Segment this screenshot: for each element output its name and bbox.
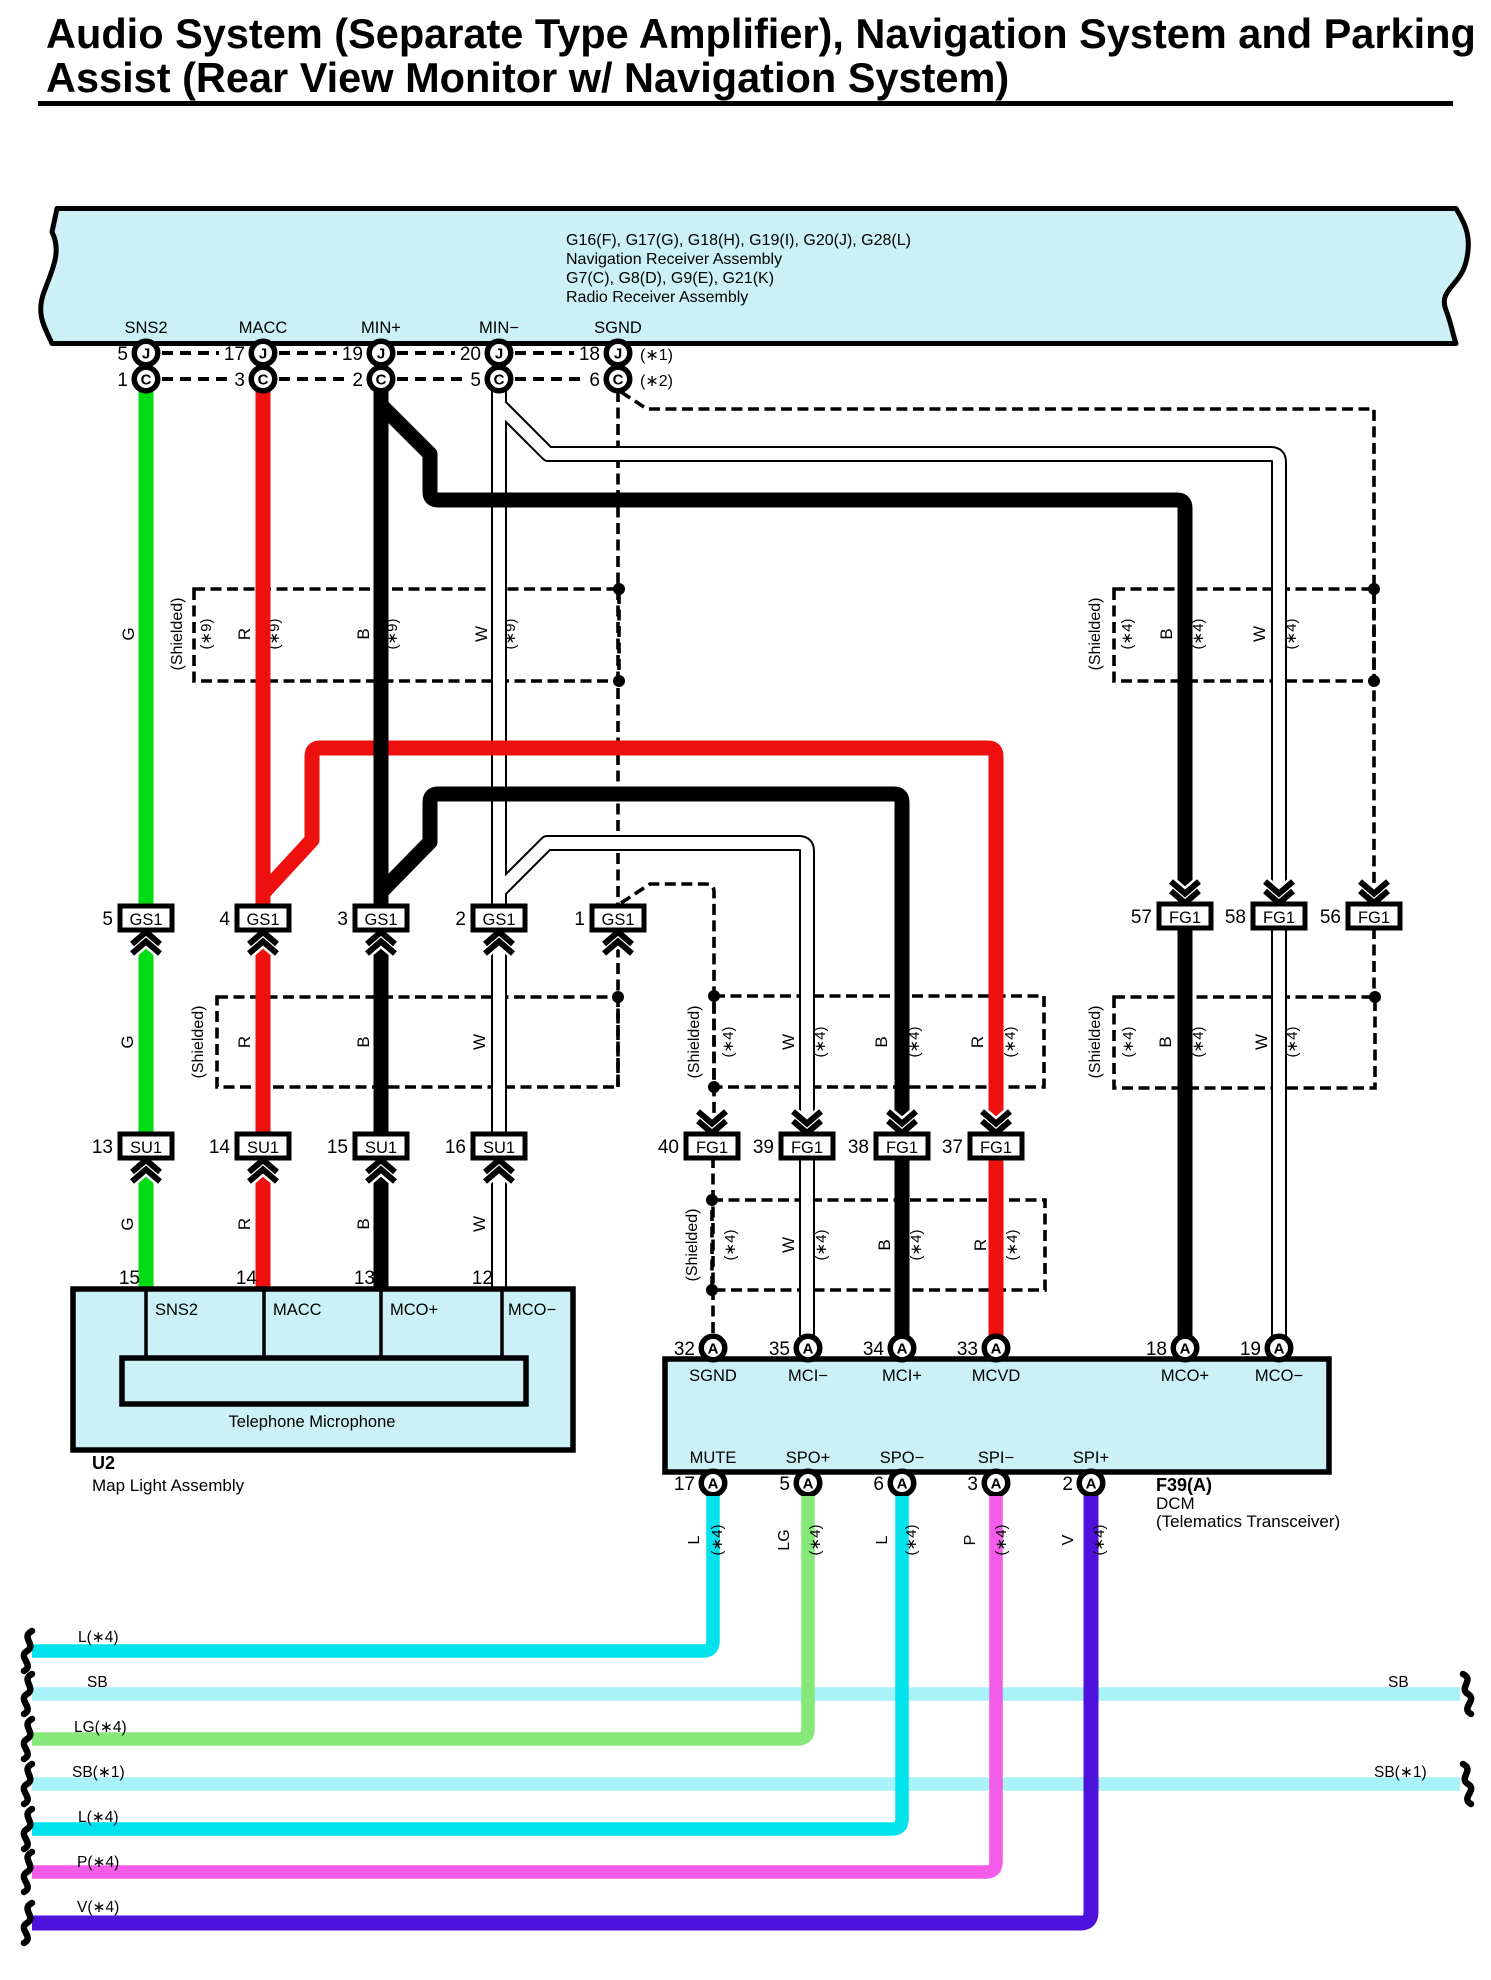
wire dashes C row	[397, 377, 463, 381]
wire LG SPO+	[32, 1496, 808, 1739]
svg-text:MCI−: MCI−	[788, 1367, 828, 1385]
svg-text:(∗4): (∗4)	[1002, 1027, 1019, 1058]
svg-text:G: G	[119, 627, 138, 640]
svg-text:38: 38	[848, 1137, 869, 1158]
svg-text:37: 37	[942, 1137, 963, 1158]
svg-text:2: 2	[352, 370, 363, 391]
svg-text:(∗4): (∗4)	[1119, 619, 1136, 650]
junction	[1368, 583, 1380, 595]
pin 33 A MCVD	[984, 1336, 1008, 1360]
svg-text:SPI−: SPI−	[978, 1449, 1014, 1467]
wire P pink SPI&#8722;	[32, 1496, 996, 1872]
torn wire end left	[24, 1903, 32, 1943]
svg-text:34: 34	[863, 1339, 885, 1360]
svg-text:(∗4): (∗4)	[722, 1230, 739, 1261]
svg-text:4: 4	[219, 909, 230, 930]
svg-text:A: A	[1086, 1476, 1097, 1493]
svg-text:GS1: GS1	[246, 911, 279, 929]
svg-text:(∗4): (∗4)	[1004, 1230, 1021, 1261]
Map Light Assembly U2 box	[73, 1289, 573, 1450]
junction	[613, 675, 625, 687]
svg-text:FG1: FG1	[1358, 909, 1390, 927]
svg-text:19: 19	[1240, 1339, 1261, 1360]
svg-text:A: A	[803, 1476, 814, 1493]
svg-text:(Shielded): (Shielded)	[190, 1006, 207, 1079]
svg-text:R: R	[235, 1218, 254, 1230]
torn wire end left	[24, 1631, 32, 1671]
svg-text:MCO+: MCO+	[1161, 1367, 1209, 1385]
junction	[706, 1194, 718, 1206]
svg-text:SU1: SU1	[483, 1139, 515, 1157]
junction	[706, 1284, 718, 1296]
svg-text:L: L	[874, 1535, 891, 1544]
svg-text:W: W	[472, 626, 491, 642]
svg-text:R: R	[968, 1036, 987, 1048]
svg-text:19: 19	[342, 344, 363, 365]
svg-text:FG1: FG1	[1263, 909, 1295, 927]
svg-text:MACC: MACC	[273, 1301, 322, 1319]
svg-text:SGND: SGND	[689, 1367, 737, 1385]
svg-text:Telephone Microphone: Telephone Microphone	[229, 1413, 396, 1431]
svg-text:G: G	[118, 1217, 137, 1230]
svg-text:J: J	[377, 346, 385, 363]
svg-text:SPO+: SPO+	[786, 1449, 830, 1467]
svg-text:(∗4): (∗4)	[908, 1230, 925, 1261]
svg-text:MCI+: MCI+	[882, 1367, 922, 1385]
svg-text:MCVD: MCVD	[972, 1367, 1021, 1385]
svg-text:GS1: GS1	[364, 911, 397, 929]
svg-text:(∗4): (∗4)	[903, 1525, 920, 1556]
svg-text:Assist (Rear View Monitor w/ N: Assist (Rear View Monitor w/ Navigation …	[46, 54, 1009, 101]
svg-text:W: W	[1252, 1034, 1271, 1050]
svg-text:U2: U2	[92, 1453, 115, 1473]
svg-text:2: 2	[455, 909, 466, 930]
svg-text:A: A	[1274, 1341, 1285, 1358]
svg-text:J: J	[614, 346, 622, 363]
svg-text:A: A	[1180, 1341, 1191, 1358]
pin 1 C	[134, 367, 158, 391]
svg-text:G7(C), G8(D), G9(E), G21(K): G7(C), G8(D), G9(E), G21(K)	[566, 270, 774, 287]
svg-text:(∗4): (∗4)	[1091, 1525, 1108, 1556]
svg-text:SB: SB	[1388, 1674, 1409, 1691]
svg-text:C: C	[258, 372, 269, 389]
svg-text:C: C	[613, 372, 624, 389]
svg-text:Navigation Receiver Assembly: Navigation Receiver Assembly	[566, 251, 782, 268]
svg-text:6: 6	[589, 370, 600, 391]
svg-text:(∗9): (∗9)	[198, 619, 215, 650]
wire SB(*1) horizontal	[32, 1777, 1460, 1791]
shielded box row2 left	[217, 997, 618, 1087]
wire SGND dashed branch to FG1-56	[621, 392, 1374, 906]
svg-text:FG1: FG1	[980, 1139, 1012, 1157]
wire B black MIN+	[374, 391, 389, 1290]
svg-text:LG(∗4): LG(∗4)	[74, 1719, 127, 1736]
svg-text:J: J	[259, 346, 267, 363]
svg-text:(∗4): (∗4)	[1190, 1027, 1207, 1058]
svg-text:A: A	[991, 1341, 1002, 1358]
svg-text:(Shielded): (Shielded)	[169, 598, 186, 671]
svg-text:P(∗4): P(∗4)	[77, 1854, 119, 1871]
svg-text:FG1: FG1	[886, 1139, 918, 1157]
svg-text:15: 15	[327, 1137, 348, 1158]
svg-text:R: R	[235, 1036, 254, 1048]
connector GS1 pin 2	[485, 932, 513, 944]
svg-text:SPO−: SPO−	[880, 1449, 924, 1467]
torn wire end left	[24, 1852, 32, 1892]
shielded box row1 left	[194, 589, 619, 681]
wire SB horizontal	[32, 1687, 1460, 1701]
junction	[1368, 675, 1380, 687]
wire R red MACC	[256, 391, 271, 1290]
svg-text:FG1: FG1	[696, 1139, 728, 1157]
pin 34 A MCI+	[890, 1336, 914, 1360]
wire dashes J row	[397, 351, 455, 355]
svg-text:(Telematics Transceiver): (Telematics Transceiver)	[1156, 1512, 1340, 1531]
svg-text:(∗4): (∗4)	[807, 1525, 824, 1556]
svg-text:W: W	[1250, 626, 1269, 642]
wire V violet SPI+	[32, 1496, 1091, 1923]
svg-text:DCM: DCM	[1156, 1494, 1195, 1513]
svg-text:3: 3	[337, 909, 348, 930]
torn wire end right	[1463, 1674, 1471, 1714]
connector SU1 pin 13	[132, 1160, 160, 1172]
svg-text:C: C	[494, 372, 505, 389]
svg-text:SB: SB	[87, 1674, 108, 1691]
svg-text:B: B	[354, 1036, 373, 1047]
svg-text:L(∗4): L(∗4)	[78, 1629, 119, 1646]
svg-text:(∗2): (∗2)	[640, 373, 673, 390]
wire L cyan SPO&#8722;	[32, 1496, 902, 1829]
pin 18 J	[606, 341, 630, 365]
svg-text:16: 16	[445, 1137, 466, 1158]
svg-text:(∗1): (∗1)	[640, 347, 673, 364]
svg-text:LG: LG	[776, 1529, 793, 1550]
svg-text:5: 5	[117, 344, 128, 365]
svg-text:MCO−: MCO−	[508, 1301, 556, 1319]
svg-text:P: P	[962, 1535, 979, 1546]
svg-text:32: 32	[674, 1339, 695, 1360]
svg-text:Map Light Assembly: Map Light Assembly	[92, 1476, 245, 1495]
wire SGND dashed below FG1-56	[1372, 928, 1376, 997]
svg-text:W: W	[779, 1034, 798, 1050]
svg-text:MUTE: MUTE	[690, 1449, 737, 1467]
svg-text:A: A	[803, 1341, 814, 1358]
svg-text:(∗4): (∗4)	[993, 1525, 1010, 1556]
svg-text:G: G	[118, 1035, 137, 1048]
pin 3 C	[251, 367, 275, 391]
svg-text:W: W	[470, 1034, 489, 1050]
svg-text:R: R	[971, 1239, 990, 1251]
svg-text:V(∗4): V(∗4)	[77, 1899, 119, 1916]
svg-text:13: 13	[92, 1137, 113, 1158]
svg-text:G16(F), G17(G), G18(H), G19(I): G16(F), G17(G), G18(H), G19(I), G20(J), …	[566, 232, 911, 249]
wire R red branch to MCVD	[265, 748, 996, 1336]
svg-text:R: R	[235, 628, 254, 640]
wire L cyan MUTE	[32, 1496, 713, 1651]
svg-text:(∗4): (∗4)	[813, 1230, 830, 1261]
svg-text:MACC: MACC	[239, 319, 288, 337]
svg-text:14: 14	[209, 1137, 231, 1158]
connector GS1 pin 1	[604, 932, 632, 944]
svg-text:56: 56	[1320, 907, 1341, 928]
wire dashes C row	[162, 377, 227, 381]
svg-text:SGND: SGND	[594, 319, 642, 337]
svg-text:B: B	[1157, 628, 1176, 639]
connector SU1 pin 15	[367, 1160, 395, 1172]
svg-text:F39(A): F39(A)	[1156, 1475, 1212, 1495]
svg-text:57: 57	[1131, 907, 1152, 928]
pin 6 C	[606, 367, 630, 391]
svg-text:SU1: SU1	[130, 1139, 162, 1157]
svg-text:17: 17	[674, 1474, 695, 1495]
svg-text:SNS2: SNS2	[155, 1301, 198, 1319]
shielded box row2 right	[1114, 997, 1375, 1088]
svg-text:35: 35	[769, 1339, 790, 1360]
svg-text:W: W	[470, 1216, 489, 1232]
junction	[612, 991, 624, 1003]
svg-text:B: B	[875, 1239, 894, 1250]
svg-text:B: B	[354, 628, 373, 639]
svg-text:GS1: GS1	[129, 911, 162, 929]
svg-text:GS1: GS1	[601, 911, 634, 929]
shielded box row1 right	[1114, 589, 1374, 681]
svg-text:A: A	[708, 1341, 719, 1358]
junction	[708, 1081, 720, 1093]
connector GS1 pin 5	[132, 932, 160, 944]
svg-text:13: 13	[354, 1268, 375, 1289]
svg-text:A: A	[708, 1476, 719, 1493]
connector FG1 pin 39	[793, 1121, 821, 1133]
wire SGND dashed branch GS1-1 to FG1-40	[621, 884, 714, 1134]
svg-text:14: 14	[236, 1268, 258, 1289]
pin 20 J	[487, 341, 511, 365]
svg-text:MCO−: MCO−	[1255, 1367, 1303, 1385]
svg-text:(Shielded): (Shielded)	[686, 1006, 703, 1079]
connector SU1 pin 14	[249, 1160, 277, 1172]
wire dashes J row	[279, 351, 337, 355]
svg-text:5: 5	[779, 1474, 790, 1495]
torn wire end left	[24, 1674, 32, 1714]
svg-text:V: V	[1060, 1534, 1077, 1545]
svg-text:12: 12	[472, 1268, 493, 1289]
svg-text:18: 18	[1146, 1339, 1167, 1360]
svg-text:1: 1	[117, 370, 128, 391]
svg-text:FG1: FG1	[791, 1139, 823, 1157]
svg-text:SPI+: SPI+	[1073, 1449, 1109, 1467]
connector GS1 pin 3	[367, 932, 395, 944]
torn wire end left	[24, 1809, 32, 1849]
svg-text:FG1: FG1	[1169, 909, 1201, 927]
svg-text:5: 5	[470, 370, 481, 391]
svg-text:MIN−: MIN−	[479, 319, 519, 337]
svg-text:SU1: SU1	[365, 1139, 397, 1157]
svg-text:SB(∗1): SB(∗1)	[72, 1764, 125, 1781]
pin 17 J	[251, 341, 275, 365]
wire dashes C row	[279, 377, 345, 381]
wire SGND dashed below GS1-1	[616, 930, 620, 1087]
shielded box row2 middle	[714, 996, 1044, 1087]
svg-text:MCO+: MCO+	[390, 1301, 438, 1319]
torn wire end right	[1463, 1764, 1471, 1804]
wire dashes C row	[515, 377, 582, 381]
svg-text:SB(∗1): SB(∗1)	[1374, 1764, 1427, 1781]
junction	[613, 583, 625, 595]
svg-text:A: A	[991, 1476, 1002, 1493]
svg-text:17: 17	[224, 344, 245, 365]
svg-text:(∗4): (∗4)	[709, 1525, 726, 1556]
pin 19 J	[369, 341, 393, 365]
svg-text:33: 33	[957, 1339, 978, 1360]
pin 5 J	[134, 341, 158, 365]
connector GS1 pin 4	[249, 932, 277, 944]
svg-text:J: J	[495, 346, 503, 363]
wire SGND dashed FG1-40 to DCM pin32	[711, 1157, 715, 1336]
shielded box row3 middle	[712, 1200, 1045, 1290]
DCM F39(A) box	[665, 1359, 1329, 1472]
wire W white MIN&#8722; with branches	[491, 391, 507, 1290]
svg-text:(Shielded): (Shielded)	[1087, 1006, 1104, 1079]
svg-text:(Shielded): (Shielded)	[1087, 598, 1104, 671]
svg-text:GS1: GS1	[482, 911, 515, 929]
svg-text:(∗4): (∗4)	[1190, 619, 1207, 650]
torn wire end left	[24, 1719, 32, 1759]
svg-text:C: C	[376, 372, 387, 389]
connector SU1 pin 16	[485, 1160, 513, 1172]
svg-text:(Shielded): (Shielded)	[684, 1209, 701, 1282]
connector FG1 pin 56	[1360, 891, 1388, 903]
svg-text:18: 18	[579, 344, 600, 365]
svg-text:L: L	[686, 1535, 703, 1544]
svg-text:A: A	[897, 1476, 908, 1493]
svg-text:2: 2	[1062, 1474, 1073, 1495]
connector FG1 pin 40	[698, 1121, 726, 1133]
svg-text:6: 6	[873, 1474, 884, 1495]
wire dashes J row	[162, 351, 219, 355]
connector FG1 pin 37	[982, 1121, 1010, 1133]
connector FG1 pin 58	[1265, 891, 1293, 903]
wire dashes J row	[515, 351, 574, 355]
wire G green SNS2	[139, 391, 154, 1290]
svg-text:B: B	[1156, 1036, 1175, 1047]
svg-text:B: B	[872, 1036, 891, 1047]
pin 35 A MCI&#8722;	[796, 1336, 820, 1360]
svg-text:Audio System (Separate Type Am: Audio System (Separate Type Amplifier), …	[46, 10, 1476, 57]
junction	[708, 990, 720, 1002]
svg-text:SNS2: SNS2	[124, 319, 167, 337]
svg-text:SU1: SU1	[247, 1139, 279, 1157]
svg-text:L(∗4): L(∗4)	[78, 1809, 119, 1826]
svg-text:Radio Receiver Assembly: Radio Receiver Assembly	[566, 289, 748, 306]
wire B black branch to FG1-38 / MCI+	[383, 794, 902, 1336]
pin 32 A SGND	[701, 1336, 725, 1360]
pin 2 C	[369, 367, 393, 391]
svg-text:15: 15	[119, 1268, 140, 1289]
wire B black branch to FG1-57 / MCO+	[382, 406, 1185, 1336]
svg-text:C: C	[141, 372, 152, 389]
svg-text:W: W	[779, 1237, 798, 1253]
connector FG1 pin 57	[1171, 891, 1199, 903]
svg-text:A: A	[897, 1341, 908, 1358]
svg-text:58: 58	[1225, 907, 1246, 928]
svg-text:(∗4): (∗4)	[1120, 1027, 1137, 1058]
Navigation/Radio Receiver Assembly box	[41, 209, 1469, 344]
svg-text:B: B	[354, 1218, 373, 1229]
svg-text:1: 1	[574, 909, 585, 930]
svg-text:20: 20	[460, 344, 481, 365]
svg-text:5: 5	[102, 909, 113, 930]
connector FG1 pin 38	[888, 1121, 916, 1133]
Telephone Microphone box	[122, 1358, 526, 1404]
svg-text:3: 3	[234, 370, 245, 391]
svg-text:MIN+: MIN+	[361, 319, 401, 337]
svg-text:40: 40	[658, 1137, 679, 1158]
junction	[1369, 991, 1381, 1003]
pin 5 C	[487, 367, 511, 391]
pin 18 A MCO+	[1173, 1336, 1197, 1360]
svg-text:3: 3	[967, 1474, 978, 1495]
wire SGND dashed vertical from C6 to GS1-1	[616, 391, 620, 906]
svg-text:J: J	[142, 346, 150, 363]
svg-text:39: 39	[753, 1137, 774, 1158]
pin 19 A MCO&#8722;	[1267, 1336, 1291, 1360]
svg-text:(∗4): (∗4)	[720, 1027, 737, 1058]
torn wire end left	[24, 1764, 32, 1804]
